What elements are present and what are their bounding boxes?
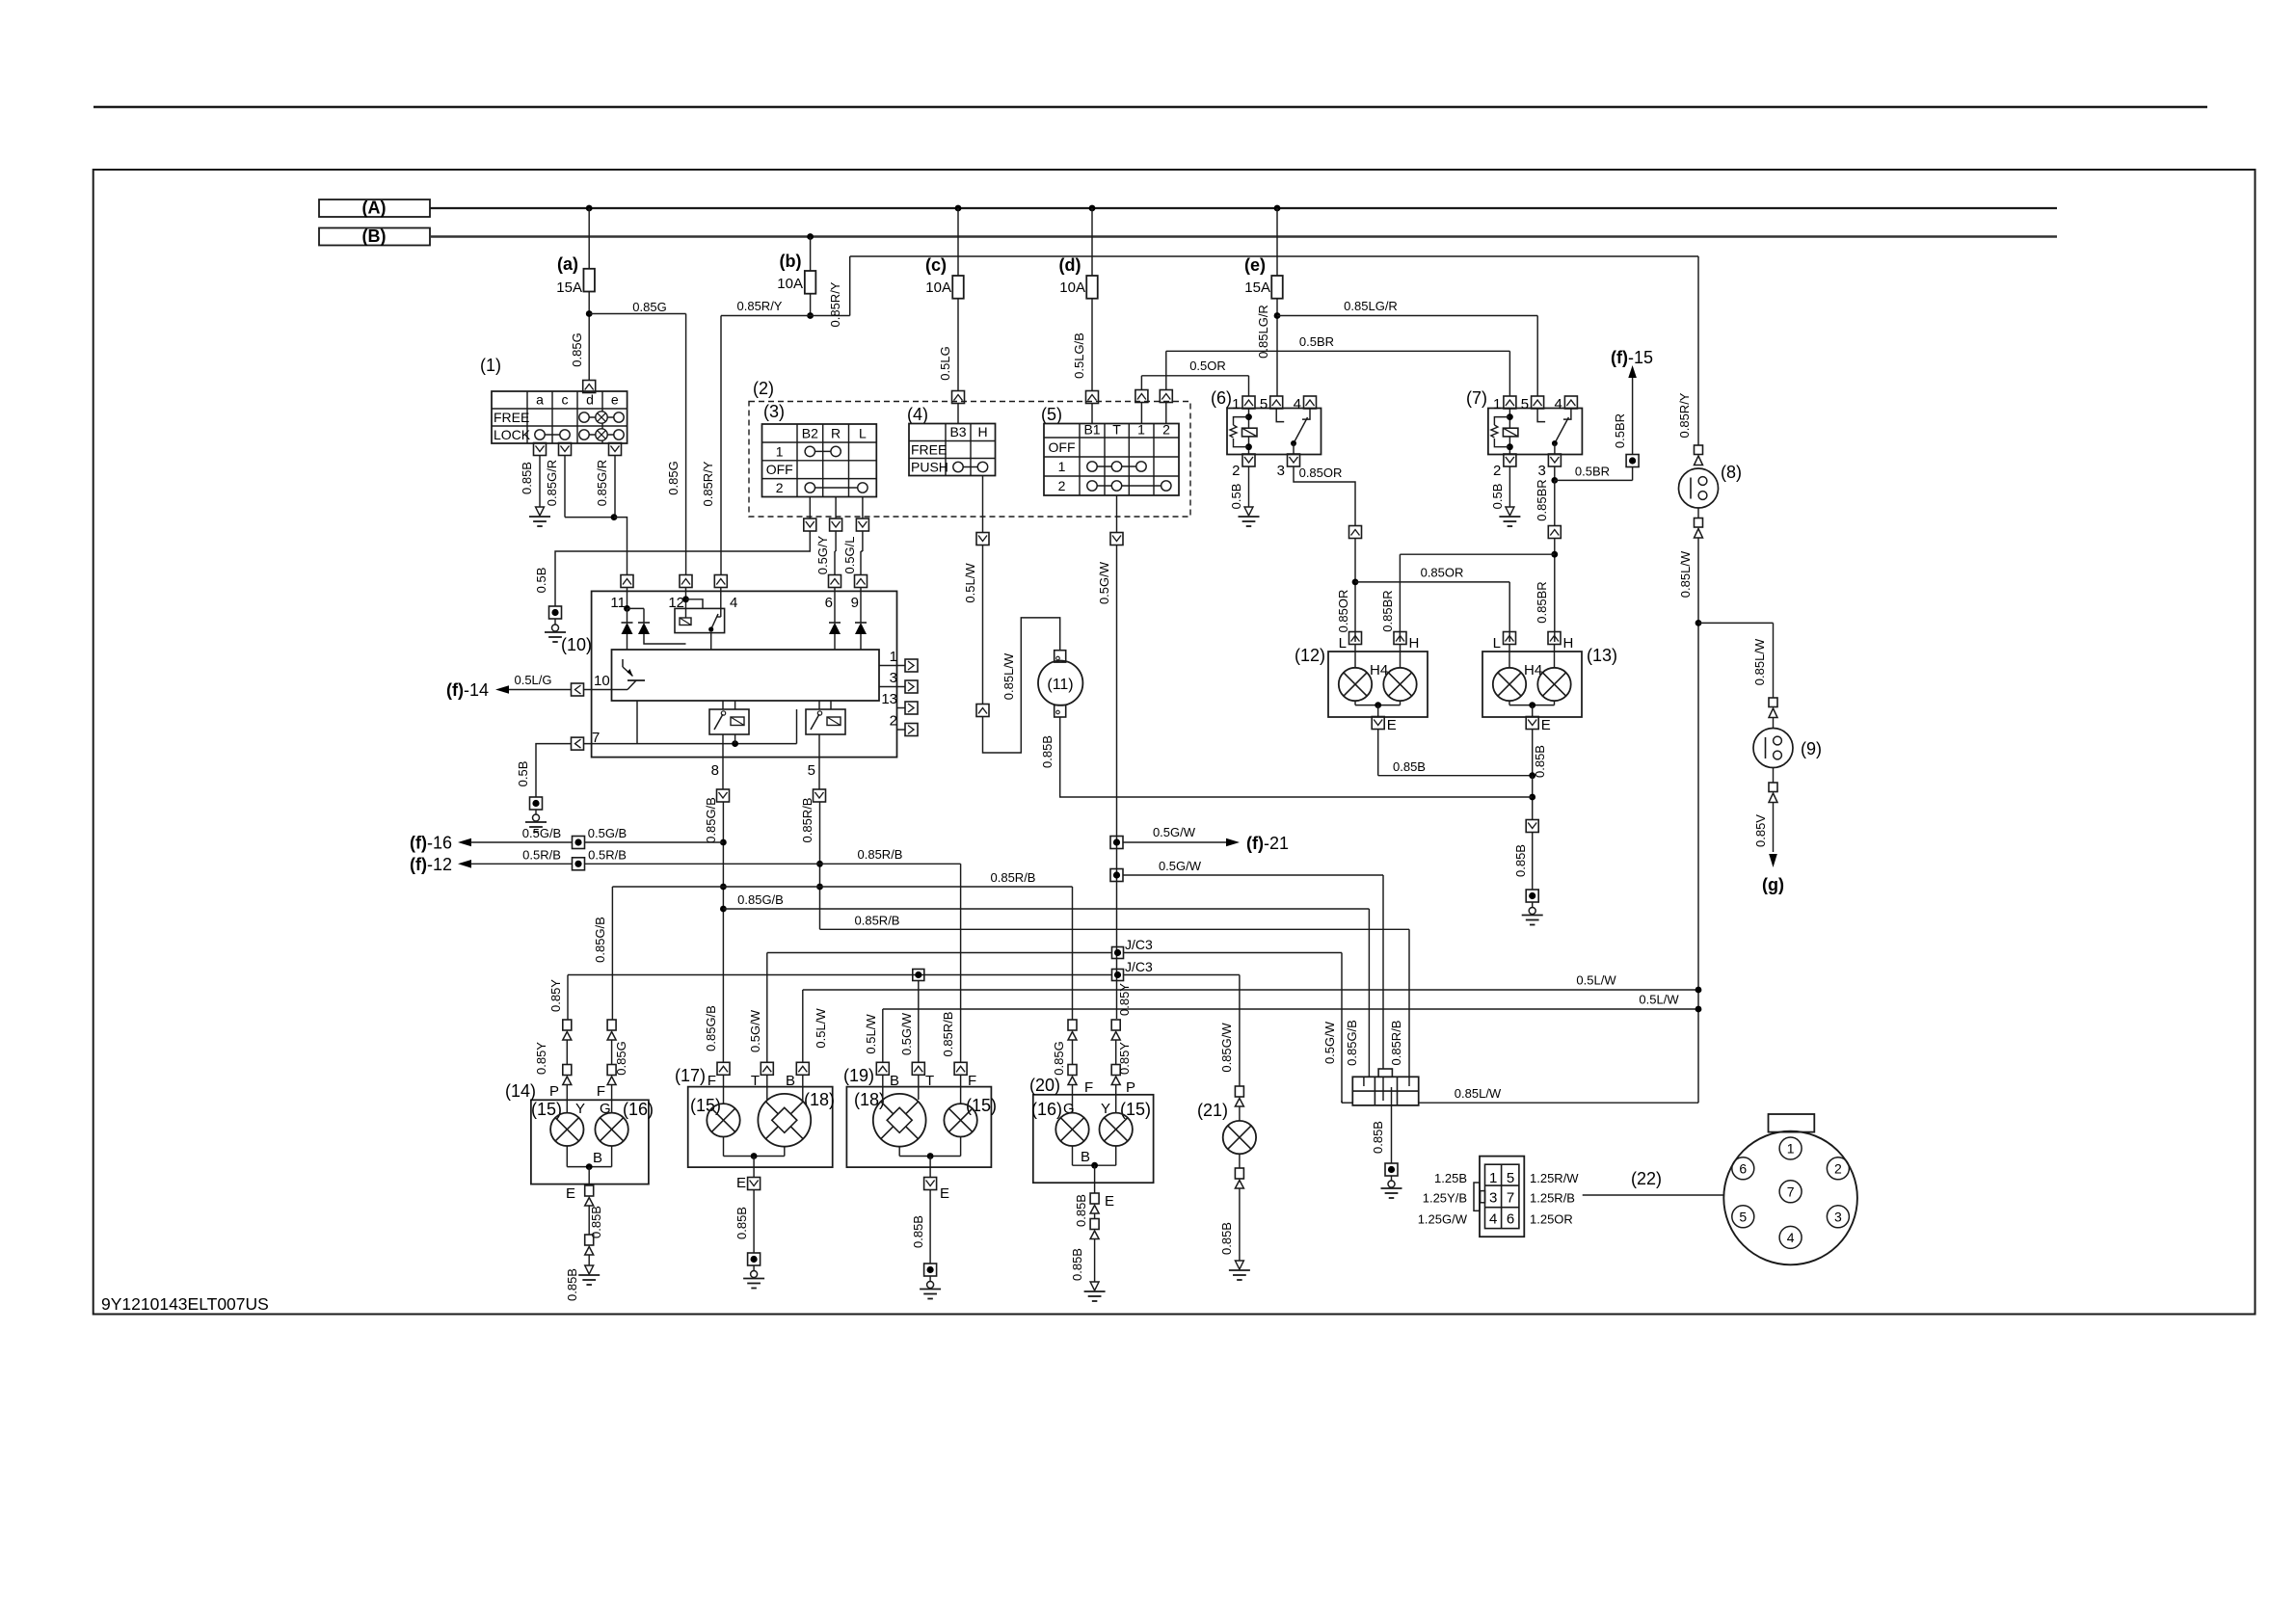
wire bus (A) <box>430 207 2057 209</box>
svg-text:(f)-15: (f)-15 <box>1611 348 1653 367</box>
svg-text:4: 4 <box>1294 396 1301 412</box>
headlamp (13) E wire <box>1508 701 1510 705</box>
svg-text:F: F <box>968 1073 976 1089</box>
svg-text:P: P <box>1126 1079 1135 1096</box>
lamp (20) F riser connectors <box>1068 1020 1077 1030</box>
switch (3) row 2 contacts <box>810 487 863 489</box>
headlamp (12) pin H connector <box>1394 632 1406 645</box>
lamp (21) bulb <box>1239 1106 1241 1121</box>
lamp (19) pin E connector <box>924 1178 937 1190</box>
lamp (20) B wire <box>1072 1146 1074 1165</box>
svg-text:1: 1 <box>1787 1141 1795 1157</box>
lamp (14) B wire <box>566 1146 568 1167</box>
svg-text:15A: 15A <box>556 279 582 296</box>
svg-text:0.5BR: 0.5BR <box>1613 413 1627 448</box>
svg-text:1: 1 <box>1137 422 1145 438</box>
connector 0.85B <box>1526 820 1538 833</box>
motor (11) <box>1055 651 1066 662</box>
svg-text:T: T <box>751 1073 760 1089</box>
lamp (14) lower connector <box>585 1235 594 1245</box>
wire 0.85R/B from flasher pin 5 <box>819 802 821 929</box>
flasher (10) internal relay <box>682 596 689 602</box>
ground relay (7) <box>1506 507 1514 516</box>
wire 0.85L/W junction box output <box>1419 1102 1698 1104</box>
connector above (9) <box>1769 698 1777 707</box>
relay (7) coil <box>1508 409 1510 455</box>
wire 0.5L/W lower <box>883 1008 1698 1010</box>
headlamp (13) pin H connector <box>1548 632 1561 645</box>
lamp (20) lower connector <box>1090 1219 1099 1230</box>
svg-text:0.5L/W: 0.5L/W <box>1639 993 1679 1007</box>
svg-text:(22): (22) <box>1631 1169 1662 1188</box>
svg-text:B: B <box>786 1073 795 1089</box>
svg-text:T: T <box>1112 422 1121 438</box>
svg-text:LOCK: LOCK <box>494 427 531 442</box>
connector 0.85OR <box>1349 526 1362 539</box>
svg-text:0.5G/B: 0.5G/B <box>588 826 627 840</box>
svg-text:(16): (16) <box>623 1100 654 1119</box>
connector above (8) <box>1695 445 1703 455</box>
wire to socket (22) <box>1583 1194 1724 1196</box>
svg-text:8: 8 <box>711 762 719 779</box>
socket (22) pin 4 <box>1779 1226 1802 1248</box>
switch (3) pin L connector <box>856 519 868 531</box>
svg-text:1: 1 <box>1489 1170 1497 1186</box>
svg-text:0.5R/B: 0.5R/B <box>522 847 561 862</box>
node (A) label box <box>319 200 430 217</box>
socket (22) pin 7 <box>1779 1181 1802 1203</box>
switch (1) pin e connector <box>609 443 622 456</box>
switch (4) PUSH row contacts <box>958 466 983 468</box>
lamp (14) F riser connectors <box>607 1020 616 1030</box>
svg-text:(17): (17) <box>675 1066 706 1085</box>
svg-text:0.85R/B: 0.85R/B <box>855 913 900 927</box>
wire 0.85R/B row to lamp (19) <box>585 863 820 865</box>
svg-text:0.85B: 0.85B <box>1533 745 1547 778</box>
svg-text:0.85OR: 0.85OR <box>1421 566 1464 580</box>
svg-text:0.85OR: 0.85OR <box>1299 466 1343 480</box>
ground relay (6) <box>1244 507 1253 516</box>
wire 0.85G/B from flasher pin 8 <box>722 802 724 1062</box>
svg-text:0.85B: 0.85B <box>734 1207 749 1239</box>
connector (22) 6-pole block <box>1480 1157 1524 1237</box>
terminal junction box ground <box>1385 1163 1398 1176</box>
headlamp (12) high beam bulb <box>1400 644 1402 668</box>
relay (6) pin 1 <box>1242 396 1255 409</box>
wire 0.5R/B to (f)-12 <box>470 863 573 865</box>
svg-text:0.85BR: 0.85BR <box>1535 581 1549 623</box>
switch (5) row 1 contacts <box>1092 466 1141 467</box>
svg-text:B2: B2 <box>802 426 818 441</box>
svg-text:0.85L/W: 0.85L/W <box>1752 638 1767 685</box>
svg-text:1: 1 <box>776 443 784 459</box>
wire 0.5LG <box>957 299 959 392</box>
wire 0.85G/R from (1)e <box>614 456 616 518</box>
svg-text:F: F <box>1084 1079 1093 1096</box>
wire 0.5G/W to junction box <box>1123 874 1383 876</box>
svg-text:0.85LG/R: 0.85LG/R <box>1256 305 1270 359</box>
wire 0.85G/R from (1)c <box>564 456 566 518</box>
wire 0.85LG/R from fuse (e) <box>1276 299 1278 397</box>
arrow (f)-15 <box>1628 365 1637 378</box>
wire 0.85L/W down right side <box>1697 538 1699 1103</box>
svg-text:6: 6 <box>1739 1160 1747 1176</box>
svg-text:PUSH: PUSH <box>911 460 948 475</box>
svg-text:(11): (11) <box>1047 677 1073 693</box>
svg-text:0.85B: 0.85B <box>565 1268 579 1301</box>
svg-text:0.5L/W: 0.5L/W <box>864 1014 878 1054</box>
terminal 0.5BR <box>1626 455 1639 467</box>
svg-text:0.5G/Y: 0.5G/Y <box>815 535 830 574</box>
svg-text:2: 2 <box>1834 1160 1842 1176</box>
wire J/C3 upper row <box>767 952 1112 954</box>
flasher (10) pin 9 <box>855 575 868 588</box>
switch (5) pin T connector <box>1116 495 1118 533</box>
svg-text:H: H <box>977 424 987 439</box>
svg-text:0.85G: 0.85G <box>570 333 584 366</box>
svg-text:F: F <box>707 1073 716 1089</box>
svg-text:2: 2 <box>776 480 784 495</box>
svg-text:0.85R/Y: 0.85R/Y <box>737 299 783 313</box>
arrow (g) <box>1769 854 1777 867</box>
svg-text:2: 2 <box>1058 478 1066 493</box>
wire 0.85R/B row to junction box <box>820 928 1410 930</box>
svg-text:0.85Y: 0.85Y <box>1117 1042 1132 1075</box>
svg-text:15A: 15A <box>1244 279 1270 296</box>
connector below (9) <box>1773 768 1775 784</box>
svg-text:0.85B: 0.85B <box>520 462 534 494</box>
wire 0.85BR to headlamps <box>1554 538 1556 642</box>
svg-text:d: d <box>586 392 594 408</box>
svg-text:6: 6 <box>825 595 833 611</box>
svg-text:(e): (e) <box>1244 255 1266 275</box>
svg-text:L: L <box>859 426 867 441</box>
svg-text:0.85R/B: 0.85R/B <box>858 847 903 862</box>
svg-text:OFF: OFF <box>1049 439 1076 455</box>
wire 0.5BR to (f)-15 <box>1555 479 1633 481</box>
svg-text:0.85Y: 0.85Y <box>1117 983 1132 1016</box>
terminal 0.5G/B <box>573 837 585 849</box>
svg-text:0.85R/B: 0.85R/B <box>1389 1021 1403 1066</box>
arrow (f)-12 <box>458 860 471 868</box>
headlamp (13) high beam bulb <box>1554 644 1556 668</box>
svg-text:2: 2 <box>1162 422 1170 438</box>
wire 0.85L/W to motor <box>983 618 1060 753</box>
lamp (20) E connector <box>1090 1193 1099 1204</box>
svg-text:E: E <box>736 1175 746 1191</box>
svg-text:(21): (21) <box>1197 1101 1228 1120</box>
svg-text:0.85R/B: 0.85R/B <box>800 798 814 843</box>
svg-text:0.5L/W: 0.5L/W <box>963 563 977 603</box>
svg-text:0.85G/B: 0.85G/B <box>704 797 718 843</box>
svg-text:(6): (6) <box>1211 388 1232 408</box>
svg-text:0.85G/R: 0.85G/R <box>545 460 559 506</box>
svg-text:0.5L/W: 0.5L/W <box>814 1008 828 1049</box>
svg-text:0.85B: 0.85B <box>1219 1222 1234 1255</box>
svg-text:0.85R/Y: 0.85R/Y <box>1677 392 1692 438</box>
svg-text:(f)-14: (f)-14 <box>446 680 489 700</box>
flasher unit (10) inner box <box>612 650 880 701</box>
svg-text:B: B <box>890 1073 899 1089</box>
wire 0.85B lamp (17) ground <box>753 1190 755 1254</box>
headlamp (12) body <box>1328 652 1428 717</box>
svg-text:10: 10 <box>594 673 610 689</box>
wire 0.5OR <box>1141 375 1248 377</box>
socket (22) pin 1 <box>1779 1137 1802 1159</box>
connector 0.5L/W <box>976 705 989 717</box>
ground 0.5B <box>554 619 556 625</box>
fuse (a) 15A <box>586 205 593 212</box>
svg-text:F: F <box>597 1083 605 1100</box>
svg-text:5: 5 <box>808 762 815 779</box>
wire 0.5LG/B <box>1091 299 1093 392</box>
svg-text:2: 2 <box>1493 463 1501 479</box>
svg-text:0.5BR: 0.5BR <box>1575 465 1610 479</box>
terminal (f)-21 <box>1110 837 1123 849</box>
svg-text:0.5B: 0.5B <box>516 761 530 787</box>
wire 0.5L/W from switch (4) <box>982 545 984 705</box>
svg-text:B1: B1 <box>1083 422 1100 438</box>
svg-text:0.85LG/R: 0.85LG/R <box>1344 299 1398 313</box>
wire 0.5L/G to (f)-14 <box>508 689 572 691</box>
wire 0.85B headlamp (12) ground run <box>1377 730 1379 776</box>
svg-text:(4): (4) <box>907 405 928 424</box>
relay (7) pin 2 <box>1504 454 1516 466</box>
wire 0.85V to (g) <box>1773 803 1775 853</box>
svg-text:(16): (16) <box>1031 1100 1062 1119</box>
switch (1) LOCK row contacts <box>540 434 565 436</box>
wire 0.5G/W from switch (5) T <box>1116 545 1118 1019</box>
switch (4) pin H connector <box>982 476 984 534</box>
wire 0.5L/W upper <box>803 989 1698 991</box>
socket (22) pin 3 <box>1827 1206 1849 1228</box>
lamp (17) pin T connector <box>761 1062 773 1075</box>
switch (3) pin R connector <box>830 519 842 531</box>
svg-text:0.5G/W: 0.5G/W <box>1097 561 1111 604</box>
svg-text:0.5L/W: 0.5L/W <box>1576 973 1616 988</box>
svg-text:0.85G/W: 0.85G/W <box>1219 1023 1234 1073</box>
wire bus (B) <box>430 235 2057 237</box>
svg-text:0.85B: 0.85B <box>1371 1121 1385 1154</box>
lamp (19) E wire <box>898 1147 900 1157</box>
wire 0.5G/B to (f)-16 <box>470 841 573 843</box>
svg-text:L: L <box>1339 635 1347 652</box>
lamp (17) pin F connector <box>717 1062 730 1075</box>
svg-text:0.85G/B: 0.85G/B <box>737 892 784 907</box>
top rule <box>93 106 2207 109</box>
terminal 0.5R/B <box>573 858 585 870</box>
svg-text:L: L <box>1493 635 1501 652</box>
lamp (20) P riser connectors <box>1111 1020 1120 1030</box>
junction J/C3 upper <box>1112 947 1124 959</box>
ground lamp (20) <box>1090 1282 1099 1290</box>
flasher (10) pin 7 rail <box>584 743 797 745</box>
relay (7) pin 1 <box>1504 396 1516 409</box>
switch (1) pin a connector <box>534 443 547 456</box>
svg-text:(18): (18) <box>804 1090 835 1109</box>
wire 0.85G from fuse (a) <box>588 292 590 382</box>
flasher (10) pin 11 <box>621 575 633 588</box>
fuse (e) 15A <box>1274 205 1281 212</box>
svg-text:5: 5 <box>1521 396 1529 412</box>
svg-text:0.85B: 0.85B <box>1513 844 1528 877</box>
relay (6) contact <box>1276 409 1284 422</box>
svg-text:FREE: FREE <box>494 410 529 425</box>
wire 0.5G/L to flasher pin 9 <box>862 531 864 551</box>
headlamp (12) E wire <box>1354 701 1356 705</box>
svg-text:1.25Y/B: 1.25Y/B <box>1423 1191 1467 1206</box>
svg-text:H: H <box>1409 635 1420 652</box>
terminal 0.5B ground <box>549 606 562 619</box>
lamp (19) pin F connector <box>954 1062 967 1075</box>
wire 0.85B headlamp (13) <box>1532 730 1534 776</box>
socket (22) pin 6 <box>1732 1157 1754 1180</box>
fuse (c) 10A <box>955 205 962 212</box>
svg-text:6: 6 <box>1507 1211 1514 1228</box>
svg-text:1: 1 <box>890 649 897 665</box>
lamp (19) pin B connector <box>876 1062 889 1075</box>
arrow (f)-16 <box>458 838 471 847</box>
svg-text:0.5LG: 0.5LG <box>938 346 952 380</box>
svg-text:(f)-16: (f)-16 <box>410 834 452 853</box>
svg-text:0.85OR: 0.85OR <box>1336 590 1350 633</box>
svg-text:(8): (8) <box>1721 463 1742 482</box>
svg-text:9Y1210143ELT007US: 9Y1210143ELT007US <box>101 1294 269 1314</box>
lamp (17) pin E connector <box>748 1178 761 1190</box>
horn (8) <box>1679 468 1719 508</box>
flasher (10) sub relay right <box>806 709 845 734</box>
wire 0.5B relay (7) pin 2 to ground <box>1508 466 1510 507</box>
svg-text:7: 7 <box>1787 1184 1795 1199</box>
svg-text:(d): (d) <box>1059 255 1081 275</box>
svg-text:0.85L/W: 0.85L/W <box>1678 550 1693 598</box>
flasher (10) right pins 1 3 13 2 <box>879 665 905 667</box>
wire 0.5B pin 7 to ground <box>536 744 572 797</box>
svg-text:0.5R/B: 0.5R/B <box>588 847 627 862</box>
ground lamp (21) <box>1235 1261 1243 1269</box>
junction connector block <box>1378 1069 1392 1077</box>
relay (6) coil <box>1248 409 1250 455</box>
svg-text:2: 2 <box>1232 463 1240 479</box>
svg-text:11: 11 <box>610 595 626 611</box>
svg-text:10A: 10A <box>1059 279 1085 296</box>
headlamp (13) body <box>1482 652 1582 717</box>
svg-text:(f)-21: (f)-21 <box>1246 834 1289 853</box>
wire 0.85R/Y right riser <box>1697 256 1699 445</box>
lamp (21) connector <box>1235 1086 1243 1097</box>
svg-text:1: 1 <box>1232 396 1240 412</box>
ground under switch (1) <box>536 507 545 516</box>
svg-text:4: 4 <box>1489 1211 1497 1228</box>
svg-text:0.85G/R: 0.85G/R <box>595 460 609 506</box>
svg-text:(c): (c) <box>925 255 947 275</box>
flasher (10) pin 4 <box>714 575 727 588</box>
svg-text:0.85B: 0.85B <box>911 1215 925 1248</box>
svg-text:0.85Y: 0.85Y <box>534 1042 548 1075</box>
svg-text:3: 3 <box>1277 463 1285 479</box>
flasher unit (10) outer box <box>592 591 897 757</box>
wire 0.85B lamp (19) ground <box>929 1190 931 1264</box>
node (B) label box <box>319 228 430 246</box>
flasher (10) internal diodes <box>624 605 630 612</box>
svg-text:1: 1 <box>1058 459 1066 474</box>
fuse (b) 10A <box>807 233 814 240</box>
svg-text:(15): (15) <box>966 1096 997 1115</box>
svg-text:0.85BR: 0.85BR <box>1535 479 1549 520</box>
relay (6) body <box>1227 409 1322 455</box>
relay (6) pin 4 <box>1304 396 1317 409</box>
svg-text:3: 3 <box>1538 463 1546 479</box>
headlamp (12) pin E connector <box>1372 717 1384 730</box>
switch (1) pin c connector <box>559 443 572 456</box>
svg-text:(13): (13) <box>1587 646 1617 665</box>
headlamp (13) pin E connector <box>1526 717 1538 730</box>
relay (7) pin 3 <box>1548 454 1561 466</box>
ground lamp (14) <box>585 1265 594 1274</box>
svg-text:(3): (3) <box>763 402 785 421</box>
headlamp (12) pin L connector <box>1349 632 1362 645</box>
svg-text:E: E <box>1387 717 1397 733</box>
svg-text:5: 5 <box>1739 1209 1747 1224</box>
svg-text:0.85B: 0.85B <box>1040 735 1055 768</box>
wire B2 feed <box>555 531 810 606</box>
svg-text:0.5LG/B: 0.5LG/B <box>1072 333 1086 379</box>
svg-text:(b): (b) <box>780 252 802 271</box>
svg-text:0.85V: 0.85V <box>1753 814 1768 847</box>
flasher (10) sub relay left <box>709 709 749 734</box>
lamp (17) pin B connector <box>796 1062 809 1075</box>
terminal 0.5B flasher ground <box>530 797 543 810</box>
svg-text:1.25OR: 1.25OR <box>1530 1212 1573 1227</box>
svg-text:0.85G: 0.85G <box>632 300 666 314</box>
svg-text:(A): (A) <box>362 199 387 218</box>
svg-text:1.25G/W: 1.25G/W <box>1418 1212 1468 1227</box>
flasher (10) pin 6 <box>829 575 841 588</box>
svg-text:10A: 10A <box>777 276 803 292</box>
flasher (10) pin 7 connector <box>572 737 584 750</box>
svg-text:0.85B: 0.85B <box>1074 1194 1088 1227</box>
svg-text:(19): (19) <box>843 1066 874 1085</box>
junction 0.85G/R <box>611 514 618 520</box>
switch (1) FREE row contacts <box>584 416 619 418</box>
svg-text:0.85G: 0.85G <box>614 1041 628 1075</box>
svg-text:H: H <box>1563 635 1574 652</box>
svg-text:3: 3 <box>890 670 897 686</box>
switch (3) row 1 contacts <box>810 450 836 452</box>
ground for headlamps <box>1526 890 1538 902</box>
lamp (17) E wire <box>723 1137 725 1157</box>
svg-text:FREE: FREE <box>911 442 947 458</box>
ground junction box <box>1391 1176 1393 1181</box>
lamp (19) pin T connector <box>912 1062 924 1075</box>
svg-text:E: E <box>1105 1193 1114 1210</box>
svg-text:0.85Y: 0.85Y <box>548 979 563 1012</box>
fuse (d) 10A <box>1089 205 1096 212</box>
svg-text:OFF: OFF <box>766 462 793 477</box>
ground lamp (17) <box>748 1253 761 1265</box>
wire 0.5B relay (6) pin 2 to ground <box>1248 466 1250 507</box>
headlamp (13) low beam bulb <box>1508 644 1510 668</box>
svg-text:e: e <box>611 392 619 408</box>
wire 0.5G/Y to flasher pin 6 <box>835 531 837 551</box>
svg-text:4: 4 <box>1787 1230 1795 1245</box>
svg-text:R: R <box>831 426 841 441</box>
lamp (20) body <box>1033 1095 1154 1183</box>
socket (22) 7 pin round <box>1769 1114 1815 1132</box>
terminal J/C3 on lamp (19) T <box>913 970 924 981</box>
svg-text:B: B <box>1081 1149 1090 1165</box>
svg-text:0.85L/W: 0.85L/W <box>1001 652 1016 700</box>
